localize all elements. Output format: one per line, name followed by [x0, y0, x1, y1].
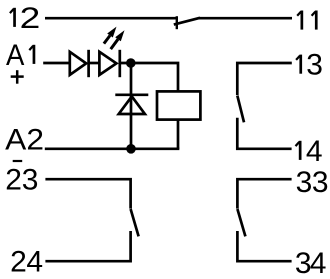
LED arrow 1 [104, 27, 117, 44]
svg-text:4: 4 [306, 135, 323, 168]
contact 11-12 blade (NC) [174, 18, 200, 25]
LED V2 cathode bar [118, 50, 121, 77]
svg-text:2: 2 [20, 1, 41, 35]
contact 33-34 blade (NO) [237, 209, 245, 236]
LED V2 triangle [99, 52, 116, 75]
contact 33-34 wire to 34 [237, 231, 291, 261]
LED arrow 2 [111, 30, 125, 49]
svg-text:33: 33 [296, 166, 329, 199]
wire LED to coil top [120, 63, 178, 91]
contact 33-34 wire from 33 [237, 179, 291, 208]
wire A2 [45, 147, 180, 150]
wire 12 to contact [45, 17, 177, 20]
svg-text:A: A [6, 39, 25, 72]
label 12 [10, 1, 40, 35]
junction node at A2 line [126, 144, 136, 154]
label 14 [296, 135, 323, 168]
contact 23-24 blade (NO) [131, 209, 139, 236]
junction node at A1 line [126, 58, 136, 68]
wire contact to 11 [199, 17, 292, 20]
label A1 [6, 39, 34, 72]
contact 23-24 wire to 24 [45, 231, 130, 261]
wire junction to junction (through V3) [130, 63, 133, 149]
svg-text:A2: A2 [5, 124, 44, 157]
svg-text:23: 23 [5, 163, 38, 196]
plus sign [11, 70, 24, 84]
contact 11-12 fixed tick [176, 16, 178, 29]
svg-text:3: 3 [306, 49, 323, 82]
wire V1 to LED [89, 62, 100, 65]
flyback diode V3 triangle [119, 96, 145, 114]
label 11 [297, 11, 316, 30]
contact 23-24 wire from 23 [45, 179, 130, 208]
label 13 [296, 49, 323, 82]
flyback diode V3 cathode bar [115, 93, 148, 96]
minus sign [13, 160, 23, 162]
contact 13-14 blade (NO) [237, 96, 244, 123]
contact 13-14 wire to 14 [237, 118, 291, 149]
diode V1 cathode bar [87, 50, 90, 77]
contact 13-14 wire from 13 [237, 63, 291, 95]
wire A1 to diode V1 [43, 62, 70, 65]
svg-text:34: 34 [295, 247, 327, 279]
svg-text:24: 24 [10, 246, 43, 279]
wire coil bottom to A2 [177, 120, 180, 149]
diode V1 triangle [70, 52, 86, 75]
relay coil K1 [157, 91, 200, 119]
